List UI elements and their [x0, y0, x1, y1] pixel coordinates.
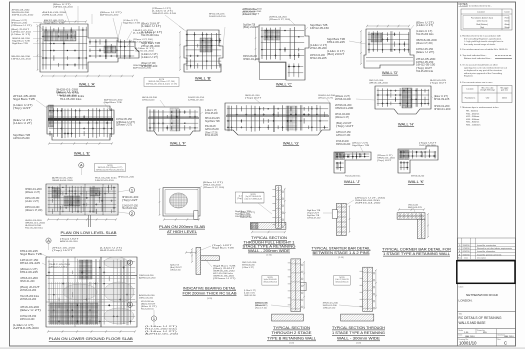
svg-text:WALL 'C': WALL 'C' [276, 82, 292, 87]
svg-text:Cover: Cover [504, 11, 510, 14]
svg-text:Stgd Bars T2B: Stgd Bars T2B [212, 247, 235, 250]
svg-text:20H16-04-200: 20H16-04-200 [42, 15, 64, 17]
svg-text:3H20-01-200: 3H20-01-200 [135, 51, 155, 53]
svg-text:strength N/20 days: strength N/20 days [480, 89, 495, 92]
logo box [457, 261, 515, 284]
wall H elevation [375, 86, 431, 114]
typical starter bar detail [332, 203, 350, 235]
svg-text:3H20-01-200: 3H20-01-200 [141, 66, 158, 68]
svg-text:LONDON.: LONDON. [459, 299, 473, 303]
drawing number row [458, 337, 516, 339]
svg-text:(L1&m U 1T): (L1&m U 1T) [13, 325, 34, 327]
svg-text:(Elev U 2T): (Elev U 2T) [434, 96, 448, 98]
svg-text:16H12-05-150 8H12-09-225: 16H12-05-150 8H12-09-225 [263, 281, 277, 283]
svg-text:(L1&m U 1T): (L1&m U 1T) [141, 57, 158, 59]
plan on lower ground floor slab [46, 257, 137, 333]
svg-text:6. For concrete mixes see in: 6. For concrete mixes see in use:- [460, 81, 493, 84]
svg-text:Date: Date [459, 334, 463, 337]
svg-text:8H12-09-225: 8H12-09-225 [100, 250, 123, 252]
svg-text:75mm: 75mm [504, 17, 510, 19]
circled 3 lower [127, 302, 132, 307]
svg-text:H12-05-200 links: H12-05-200 links [141, 35, 160, 37]
svg-text:4. Top steel indicated thus:: 4. Top steel indicated thus:- [460, 54, 487, 57]
svg-text:A2H10-05-200: A2H10-05-200 [139, 294, 155, 297]
svg-text:PLAN ON LOWER GROUND FLOOR SLA: PLAN ON LOWER GROUND FLOOR SLAB [49, 337, 134, 341]
svg-text:(L1&m U 1T): (L1&m U 1T) [141, 54, 158, 56]
svg-text:Stgd Bars T2B: Stgd Bars T2B [20, 253, 43, 256]
svg-text:THROUGH 2 STAGE: THROUGH 2 STAGE [272, 331, 313, 335]
svg-text:15/01/10: 15/01/10 [463, 254, 470, 256]
svg-text:40mm: 40mm [504, 24, 510, 26]
svg-text:INDICATIVE BEARING DETAIL: INDICATIVE BEARING DETAIL [183, 286, 236, 290]
svg-text:Location: Location [466, 88, 473, 91]
svg-text:Stgd Bars T2B: Stgd Bars T2B [310, 24, 328, 27]
svg-text:3. For reinforcement see sch: 3. For reinforcement see schedule No's 1… [460, 48, 508, 51]
scan shadow bottom edge [0, 347, 525, 349]
svg-text:Engineer.: Engineer. [464, 75, 474, 78]
circle mark A [79, 163, 84, 168]
svg-text:20mm: 20mm [502, 98, 508, 100]
svg-text:A2H10-05-200: A2H10-05-200 [139, 277, 156, 280]
svg-text:20H16-04-200: 20H16-04-200 [335, 105, 352, 107]
svg-text:12H10-07-150: 12H10-07-150 [336, 132, 351, 134]
svg-text:NETHERWOOD ROAD: NETHERWOOD ROAD [466, 293, 499, 297]
svg-text:(Top) U/2T: (Top) U/2T [336, 126, 354, 128]
svg-text:(2Rows U 2T): (2Rows U 2T) [116, 125, 132, 127]
svg-text:20H16-04-200: 20H16-04-200 [355, 203, 382, 205]
svg-text:8H12-09-225: 8H12-09-225 [20, 251, 39, 253]
svg-text:20H16-04-200: 20H16-04-200 [25, 207, 40, 209]
svg-text:the newly issued range of stee: the newly issued range of steels. [464, 43, 496, 46]
svg-text:WALL 'A': WALL 'A' [79, 82, 95, 87]
svg-text:H25 - 1000mm: H25 - 1000mm [466, 125, 481, 127]
circle A low [46, 238, 51, 243]
svg-text:16H12-05-150: 16H12-05-150 [416, 65, 436, 67]
svg-text:(L1&m U 1T): (L1&m U 1T) [141, 26, 161, 28]
svg-text:Location: Location [477, 11, 486, 14]
svg-text:the Consulting Engineers speci: the Consulting Engineers specification. [464, 37, 502, 40]
svg-text:(2Rows U 2T, 200): (2Rows U 2T, 200) [416, 43, 433, 45]
plan on 200mm slab at high level [159, 188, 200, 221]
svg-text:8H12-09-225: 8H12-09-225 [20, 263, 41, 265]
svg-text:(Elev U 2T): (Elev U 2T) [13, 120, 32, 122]
svg-text:(2Rows U 2T): (2Rows U 2T) [49, 266, 67, 268]
svg-text:4H16-03-200: 4H16-03-200 [20, 307, 40, 309]
svg-text:Stgd Bars T2B: Stgd Bars T2B [205, 120, 220, 123]
wall G section plan [225, 103, 330, 135]
note box near wall E [95, 164, 126, 172]
svg-text:H16 - 600mm: H16 - 600mm [466, 119, 479, 121]
svg-text:Stgd Bars T2B: Stgd Bars T2B [13, 134, 31, 137]
svg-text:(1:20): (1:20) [356, 343, 361, 345]
svg-text:PLAN ON LOW LEVEL SLAB: PLAN ON LOW LEVEL SLAB [61, 231, 118, 235]
svg-text:4H16-03-200: 4H16-03-200 [335, 114, 351, 116]
svg-text:H12-05-200 links: H12-05-200 links [25, 228, 43, 230]
svg-text:H12-05-200 links: H12-05-200 links [20, 296, 40, 298]
svg-text:30mm: 30mm [504, 27, 510, 29]
svg-text:16H12-05-150: 16H12-05-150 [57, 95, 78, 97]
svg-text:4H16-03-200: 4H16-03-200 [369, 83, 389, 85]
svg-text:16H12-05-150 (L1&m U 1T): 16H12-05-150 (L1&m U 1T) [146, 83, 178, 85]
svg-text:12H10-07-150: 12H10-07-150 [336, 135, 351, 137]
svg-text:4H16-03-200: 4H16-03-200 [20, 278, 39, 280]
svg-text:16H12-05-150: 16H12-05-150 [416, 62, 434, 64]
svg-text:PLAN ON 200mm SLAB: PLAN ON 200mm SLAB [159, 225, 206, 229]
svg-text:WALL - 300mm WIDE: WALL - 300mm WIDE [337, 337, 381, 341]
svg-text:(Top) U/2T: (Top) U/2T [377, 160, 392, 162]
svg-text:4H16-03-200: 4H16-03-200 [336, 141, 349, 143]
svg-text:16H12-05-150: 16H12-05-150 [12, 15, 35, 17]
svg-text:(1:20): (1:20) [266, 255, 272, 257]
svg-text:C30: C30 [486, 98, 489, 100]
svg-text:WALLS AND BASE: WALLS AND BASE [459, 321, 486, 325]
svg-text:BETWEEN STAGE 1 & 2 PINS: BETWEEN STAGE 1 & 2 PINS [313, 251, 371, 255]
svg-text:Stgd Bars T2B: Stgd Bars T2B [12, 42, 28, 45]
svg-text:2H12-05-200: 2H12-05-200 [310, 48, 328, 50]
svg-text:H12 - 500mm: H12 - 500mm [466, 116, 479, 118]
svg-text:20H16-04-200: 20H16-04-200 [142, 100, 155, 102]
svg-text:Revised to suit client adv: Revised to suit client advice requiremen… [477, 247, 512, 250]
svg-text:16H12-05-150: 16H12-05-150 [95, 180, 115, 182]
svg-text:(Top) U/2T: (Top) U/2T [416, 68, 433, 70]
svg-text:H10 - 450mm: H10 - 450mm [466, 113, 479, 115]
svg-text:16H12-05-150: 16H12-05-150 [416, 49, 434, 51]
svg-text:12H10-07-150: 12H10-07-150 [240, 217, 252, 219]
svg-text:20H16-04-200: 20H16-04-200 [310, 55, 326, 57]
svg-text:8H12-09-225: 8H12-09-225 [408, 207, 423, 209]
svg-text:8H12-09-225: 8H12-09-225 [20, 272, 39, 274]
svg-text:Stgd Bars T2B: Stgd Bars T2B [327, 38, 346, 41]
svg-text:8H12-09-225: 8H12-09-225 [310, 58, 327, 60]
svg-text:2H12-05-200: 2H12-05-200 [419, 145, 437, 147]
svg-text:Stgd Bars T2B: Stgd Bars T2B [123, 22, 141, 25]
svg-text:(Bot) 2U/UT: (Bot) 2U/UT [20, 286, 41, 289]
svg-text:Foundations (bottom face): Foundations (bottom face) [471, 16, 493, 19]
svg-text:(L1&m U 1T): (L1&m U 1T) [416, 31, 433, 33]
svg-text:16H12-05-150: 16H12-05-150 [152, 13, 178, 15]
svg-text:12H10-07-150: 12H10-07-150 [122, 206, 139, 208]
svg-text:8H12-09-225: 8H12-09-225 [205, 126, 216, 128]
svg-text:(L1&m U 1T): (L1&m U 1T) [205, 110, 217, 112]
notes table 1 [461, 9, 512, 30]
svg-text:Slab (Bottom): Slab (Bottom) [476, 23, 488, 26]
svg-text:12H10-07-150: 12H10-07-150 [170, 270, 181, 272]
note box section 15 [242, 193, 264, 203]
svg-text:AT HIGH LEVEL: AT HIGH LEVEL [167, 230, 197, 234]
svg-text:Issued for general comments: Issued for general comments [477, 253, 501, 256]
svg-text:(Bot) 2U/UT: (Bot) 2U/UT [243, 26, 259, 29]
svg-text:Rev.: Rev. [497, 339, 501, 341]
svg-text:(Bot) 2U/UT: (Bot) 2U/UT [336, 122, 352, 125]
svg-text:(Elev U 2T): (Elev U 2T) [416, 52, 435, 54]
svg-text:(2Rows U 2T, 200): (2Rows U 2T, 200) [269, 19, 290, 21]
svg-text:8H12-09-225: 8H12-09-225 [434, 99, 450, 101]
svg-text:3H20-01-200: 3H20-01-200 [243, 59, 261, 61]
svg-text:Stgd Bars T2B: Stgd Bars T2B [44, 22, 65, 25]
svg-text:A2H10-05-200: A2H10-05-200 [52, 177, 74, 180]
svg-text:17/03/10: 17/03/10 [463, 248, 470, 250]
wall B note box [144, 78, 179, 87]
svg-text:8H12-09-225: 8H12-09-225 [327, 42, 346, 44]
svg-text:WALL 'F': WALL 'F' [170, 141, 186, 146]
indicative bearing detail figure [185, 247, 219, 274]
svg-text:H12-05-200 links: H12-05-200 links [416, 71, 434, 73]
svg-text:A2H10-05-200: A2H10-05-200 [100, 14, 119, 17]
svg-text:10001/10: 10001/10 [459, 341, 477, 346]
svg-text:(2Rows U 2T): (2Rows U 2T) [20, 269, 38, 271]
svg-text:(2Rows U 2T): (2Rows U 2T) [335, 96, 350, 98]
svg-text:5. On no account should hole: 5. On no account should holes or other [460, 64, 498, 67]
svg-text:Stgd Bars T2B: Stgd Bars T2B [13, 98, 35, 101]
svg-text:(Bot) 2U/UT: (Bot) 2U/UT [327, 53, 345, 56]
svg-text:2H12-05-200: 2H12-05-200 [13, 96, 37, 98]
svg-text:50mm: 50mm [504, 21, 510, 23]
svg-text:16H12-05-150: 16H12-05-150 [310, 28, 330, 30]
svg-text:02/02/10: 02/02/10 [463, 251, 470, 253]
svg-text:16H12-05-150: 16H12-05-150 [209, 16, 226, 18]
svg-text:H20 - 800mm: H20 - 800mm [466, 122, 479, 124]
svg-text:WALL 'B': WALL 'B' [195, 76, 211, 81]
wall B elevation [179, 30, 223, 72]
svg-text:(Top) U/2T: (Top) U/2T [122, 200, 139, 202]
note box section 18 [262, 276, 279, 286]
svg-text:(2Rows U 2T, 200): (2Rows U 2T, 200) [25, 210, 43, 212]
svg-text:(Elev U 2T): (Elev U 2T) [20, 310, 41, 312]
svg-text:(L1&m U 1T): (L1&m U 1T) [141, 32, 163, 34]
svg-text:20H16-04-200: 20H16-04-200 [53, 7, 74, 9]
svg-text:20H16-04-200: 20H16-04-200 [20, 319, 35, 321]
svg-text:16H12-05-150: 16H12-05-150 [244, 295, 256, 297]
svg-text:2H12-05-200: 2H12-05-200 [416, 59, 436, 61]
svg-text:(L1&m U 1T): (L1&m U 1T) [327, 51, 345, 53]
svg-text:Foundations: Foundations [465, 97, 475, 100]
svg-text:36H16-06-200: 36H16-06-200 [336, 144, 351, 146]
svg-text:(Elev U 2T): (Elev U 2T) [416, 23, 434, 25]
svg-text:16H12-05-150: 16H12-05-150 [25, 198, 40, 200]
svg-text:H12-05-200 links: H12-05-200 links [345, 176, 360, 178]
svg-text:Stgd Bars T2B: Stgd Bars T2B [170, 264, 179, 267]
svg-text:16H12-05-150: 16H12-05-150 [139, 298, 154, 300]
wall E elevation [47, 105, 114, 145]
svg-text:TYPICAL SECTION: TYPICAL SECTION [273, 326, 311, 330]
svg-text:Date: Date [464, 257, 468, 260]
svg-text:(L1&m U 1T): (L1&m U 1T) [310, 45, 327, 47]
plan on low level slab [46, 184, 118, 227]
svg-text:H12-05-200 links: H12-05-200 links [60, 99, 82, 101]
svg-text:TYPICAL STARTER BAR DETAIL: TYPICAL STARTER BAR DETAIL [312, 246, 371, 250]
svg-text:f - high yield high tensile st: f - high yield high tensile strength bar… [464, 40, 504, 43]
svg-text:TYPE B RETAINING WALL: TYPE B RETAINING WALL [267, 337, 316, 341]
svg-text:2: 2 [129, 260, 131, 265]
title divider [458, 311, 516, 313]
svg-text:A2H10-05-200: A2H10-05-200 [145, 333, 180, 336]
circled 1 [129, 187, 134, 192]
svg-text:(L1&m U 2T): (L1&m U 2T) [242, 267, 254, 269]
svg-text:2: 2 [131, 211, 133, 216]
svg-text:3H20-01-200: 3H20-01-200 [335, 108, 354, 110]
svg-text:(2Rows U 2T): (2Rows U 2T) [11, 25, 32, 27]
svg-text:H8 - 300mm: H8 - 300mm [466, 111, 478, 113]
svg-text:(Top) U/2T: (Top) U/2T [245, 98, 262, 100]
svg-text:2. Reinforcement to be in ac: 2. Reinforcement to be in accordance wit… [460, 35, 502, 38]
wall F section plan [147, 107, 200, 135]
svg-text:WALL 'H': WALL 'H' [398, 122, 414, 127]
svg-text:16H12-05-150: 16H12-05-150 [20, 316, 37, 318]
notes table 2 [462, 86, 512, 103]
svg-text:19/03/10: 19/03/10 [463, 245, 470, 247]
svg-text:H12-05-200 links: H12-05-200 links [416, 34, 434, 36]
svg-text:12H10-07-150: 12H10-07-150 [20, 260, 39, 262]
svg-text:(Top): (Top) [480, 27, 485, 29]
svg-text:(L1&m U 1T): (L1&m U 1T) [416, 25, 433, 27]
svg-text:(1:20): (1:20) [207, 298, 213, 300]
svg-text:A2H10-05-200 16H12-05-150: A2H10-05-200 16H12-05-150 [336, 280, 349, 283]
svg-text:TYPICAL SECTION THROUGH: TYPICAL SECTION THROUGH [332, 326, 386, 330]
svg-text:1: 1 [153, 316, 155, 321]
typical corner bar detail [397, 208, 429, 239]
svg-text:(Top) U/2T: (Top) U/2T [13, 108, 32, 110]
svg-text:(1:10): (1:10) [338, 257, 344, 259]
svg-text:Issued for information: Issued for information [477, 250, 495, 253]
svg-text:2H12-05-200: 2H12-05-200 [205, 113, 218, 115]
svg-text:1 STAGE TYPE A RETAINING: 1 STAGE TYPE A RETAINING [332, 331, 386, 335]
svg-text:openings be cut in situ reinfo: openings be cut in situ reinforcement no… [464, 66, 507, 69]
svg-text:Stgd Bars T2B: Stgd Bars T2B [104, 101, 122, 104]
svg-text:(2Rows U 2T, 200): (2Rows U 2T, 200) [203, 187, 224, 189]
svg-text:3H20-01-200: 3H20-01-200 [56, 90, 79, 92]
svg-text:(L1&m U 1T): (L1&m U 1T) [11, 34, 31, 36]
svg-text:(2Rows U 2T): (2Rows U 2T) [335, 117, 349, 119]
svg-text:TYPICAL CORNER BAR DETAIL FOR: TYPICAL CORNER BAR DETAIL FOR [382, 248, 452, 252]
typical section 1 stage type A 300 [363, 267, 373, 311]
svg-text:2H12-05-200: 2H12-05-200 [141, 46, 161, 48]
wall A elevation [37, 20, 139, 77]
svg-text:A: A [47, 238, 50, 243]
svg-text:(2Rows U 2T): (2Rows U 2T) [25, 192, 40, 194]
svg-text:A2H10-05-200: A2H10-05-200 [13, 137, 30, 140]
svg-text:20H16-04-200 H12-05-200 links: 20H16-04-200 H12-05-200 links [96, 169, 124, 171]
svg-text:12H10-07-150: 12H10-07-150 [188, 100, 204, 102]
svg-text:H12-05-200 links: H12-05-200 links [141, 309, 154, 311]
svg-text:(Top) U/2T: (Top) U/2T [52, 250, 74, 252]
svg-text:20H16-04-200: 20H16-04-200 [20, 299, 37, 301]
svg-text:or displaced in any part of th: or displaced in any part of the structur… [464, 69, 503, 72]
svg-text:WALL 'E': WALL 'E' [74, 151, 90, 156]
svg-text:Bottom steel indicated thus:-: Bottom steel indicated thus:- [464, 57, 492, 60]
wall J corner plan [334, 152, 371, 173]
svg-text:3H20-01-200: 3H20-01-200 [25, 189, 43, 191]
svg-text:Stgd Bars T2B: Stgd Bars T2B [243, 24, 256, 27]
svg-text:3H20-01-200: 3H20-01-200 [20, 281, 35, 283]
svg-text:7. Minimum laps in reinforce: 7. Minimum laps in reinforcement to be:- [460, 106, 499, 109]
svg-text:(2Rows U 2T, 200): (2Rows U 2T, 200) [255, 308, 267, 310]
svg-text:16H12-05-150: 16H12-05-150 [116, 119, 133, 121]
svg-text:H12-05-200 links: H12-05-200 links [122, 208, 138, 210]
wall K corner plan [398, 146, 438, 173]
svg-text:3H20-01-200: 3H20-01-200 [434, 106, 450, 108]
svg-text:1: 1 [131, 187, 133, 192]
svg-text:FOR 200mm THICK RC SLAB: FOR 200mm THICK RC SLAB [183, 291, 238, 295]
svg-text:Client: Client [459, 286, 464, 289]
svg-text:(2Rows U 2T): (2Rows U 2T) [116, 122, 135, 124]
svg-text:(Top) U/2T: (Top) U/2T [430, 83, 447, 85]
svg-text:(other faces): (other faces) [477, 20, 488, 23]
svg-text:C: C [504, 341, 507, 346]
wall D elevation [360, 25, 414, 68]
svg-text:3H20-01-200: 3H20-01-200 [118, 177, 135, 179]
svg-text:36H16-06-200: 36H16-06-200 [52, 180, 74, 182]
wall C elevation [255, 25, 309, 80]
svg-text:(2Rows U 2T): (2Rows U 2T) [318, 98, 333, 100]
svg-text:(L1&m U 2T): (L1&m U 2T) [13, 105, 33, 107]
fields row 1 [458, 328, 516, 330]
svg-text:20H16-04-200: 20H16-04-200 [335, 99, 352, 101]
svg-text:Scale: Scale [459, 330, 464, 332]
svg-text:Stgd Bars T2B: Stgd Bars T2B [352, 144, 370, 147]
svg-text:gate size: gate size [501, 89, 508, 92]
svg-text:1 STAGE TYPE A RETAINING WALL: 1 STAGE TYPE A RETAINING WALL [383, 252, 450, 256]
svg-text:Stgd Bars T2B: Stgd Bars T2B [213, 265, 236, 268]
svg-text:(2Rows U 2T): (2Rows U 2T) [213, 278, 236, 280]
svg-text:WALL 'K': WALL 'K' [408, 179, 424, 184]
svg-text:(Bot) 2U/UT: (Bot) 2U/UT [141, 23, 161, 26]
fields row 2 [458, 332, 516, 334]
svg-text:(L1&m U 2T) 36H16-06-200: (L1&m U 2T) 36H16-06-200 [244, 199, 262, 201]
svg-text:Issued for construction: Issued for construction [477, 244, 496, 247]
svg-text:A2H10-05-200: A2H10-05-200 [205, 128, 219, 131]
circled 2 [129, 211, 134, 216]
svg-text:8H12-09-225: 8H12-09-225 [205, 118, 220, 120]
svg-text:36H16-06-200: 36H16-06-200 [411, 176, 425, 178]
svg-text:(L1&m U 2T): (L1&m U 2T) [13, 123, 32, 125]
svg-text:WALL 'J': WALL 'J' [344, 179, 360, 184]
svg-text:16H12-05-150: 16H12-05-150 [11, 59, 32, 61]
note box right of high level plan [235, 192, 263, 203]
svg-text:RC DETAILS OF RETAINING: RC DETAILS OF RETAINING [459, 316, 503, 320]
svg-text:(2Rows U 2T, 200): (2Rows U 2T, 200) [141, 63, 156, 65]
svg-text:12H10-07-150: 12H10-07-150 [307, 218, 321, 220]
svg-text:(Top) U/2T: (Top) U/2T [243, 14, 260, 16]
svg-text:Stgd Bars T2B: Stgd Bars T2B [307, 209, 321, 212]
revision table [458, 238, 516, 260]
svg-text:A2H10-05-200: A2H10-05-200 [13, 327, 40, 330]
title column divider [457, 2, 459, 346]
svg-text:1. Cover to reinforcement to: 1. Cover to reinforcement to be:- [460, 5, 492, 8]
typical section full height type A [276, 186, 282, 229]
svg-text:A: A [80, 163, 83, 168]
svg-text:8H12-09-225: 8H12-09-225 [205, 135, 218, 137]
svg-text:3H20-01-200: 3H20-01-200 [434, 109, 451, 111]
svg-text:Stgd Bars T2B: Stgd Bars T2B [12, 40, 30, 43]
svg-text:36H16-06-200: 36H16-06-200 [416, 40, 438, 42]
svg-text:12H10-07-150: 12H10-07-150 [323, 308, 336, 310]
svg-text:WALL - 200mm WIDE: WALL - 200mm WIDE [248, 249, 291, 253]
svg-text:Stgd Bars T2B: Stgd Bars T2B [141, 42, 161, 45]
circled 2 lower [127, 260, 132, 265]
svg-text:Description: Description [477, 257, 486, 260]
svg-text:(L1&m U 2T): (L1&m U 2T) [25, 201, 39, 203]
svg-text:3: 3 [129, 302, 131, 307]
typical section 2 stage type B [291, 259, 301, 312]
svg-text:(2Rows U 2T, 200): (2Rows U 2T, 200) [205, 133, 218, 135]
svg-text:WALL 'G': WALL 'G' [283, 141, 299, 146]
svg-text:(1:20): (1:20) [289, 343, 294, 345]
svg-text:3H20-01-200: 3H20-01-200 [122, 197, 139, 199]
svg-text:Stgd Bars T2B: Stgd Bars T2B [307, 214, 320, 217]
note box section 19 [334, 276, 351, 286]
svg-text:A2H10-05-200: A2H10-05-200 [60, 240, 79, 243]
svg-text:WALL 'D': WALL 'D' [382, 70, 398, 75]
